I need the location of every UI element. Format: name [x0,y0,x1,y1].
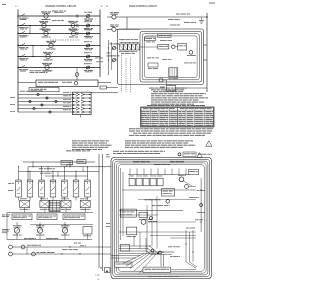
note under table [129,127,135,130]
right bus wire [206,13,208,92]
center ring [150,217,153,220]
terminal ring 3 [29,100,31,102]
wire bundle dashed 2 [125,58,127,93]
thermostat box [120,209,136,217]
wire code speck 4 [10,103,15,106]
fuse box right of board [100,86,107,89]
unit label box 2 [37,214,57,220]
right inner wire [170,237,196,239]
left interior bundle [120,168,122,240]
left margin specks [106,222,110,225]
interior cross wire b [119,214,158,216]
terminal block label [143,267,171,272]
table header rule [141,110,215,112]
tick marks [76,24,79,26]
probe jack [112,59,115,62]
load warmer element [49,43,53,47]
wire rung 1 [18,15,100,17]
board relay K2 [124,44,128,50]
caption right line 2 [113,152,116,155]
section link wire 1 [98,154,100,268]
harness loop D [116,163,206,273]
upper hub wire [150,235,196,237]
terminal ring 2 [46,97,48,99]
bundle ring 2 [159,251,162,254]
burner switch B2 [37,228,42,233]
terminal ring 7 [49,111,51,113]
board relay K1 [120,44,124,50]
svg-text:HEATER CONTROL CIRCUIT: HEATER CONTROL CIRCUIT [46,5,77,8]
P1 pin dots [73,94,74,95]
harness wire 3 [18,101,72,103]
warning triangle [206,141,212,146]
upper interior labels [133,160,140,163]
wire relay K5 [137,43,139,45]
ground strap wire [171,269,197,271]
wire board to bus lower [204,59,208,61]
mid label boxes [24,237,27,240]
terminal ring 5 [41,104,43,106]
harness wire 1 [18,94,72,96]
table column rule [150,110,152,128]
table divider [177,107,179,127]
wire board to bus upper [204,44,208,46]
wire relay K2 [124,43,126,45]
wire rung 4 [18,45,100,47]
load bake element [71,24,75,28]
interior label row 1 [145,198,148,201]
latch relay K23 [150,178,156,186]
display label box [158,34,171,38]
connector P1 block [72,92,91,114]
interior cross wire d [119,231,196,233]
thermostat switch S5 [87,55,90,58]
footnotes left column [72,139,77,142]
surface element R4 [80,201,90,208]
DLB relay contact K5 [20,56,21,57]
wire relays to eoc [139,46,158,48]
wire relay K3 [129,43,131,45]
cam switch [185,185,189,189]
aux label [139,218,142,221]
thermostat switch S6 [87,66,90,69]
feed jog wires [32,162,34,167]
margin speck a [8,182,11,185]
surface infinite switches [16,180,22,197]
caption line 2 [151,88,156,91]
unit label box 3 [63,214,85,220]
aux box a [139,213,148,218]
lock wire row 2 [12,253,111,255]
wire rung6 tail [76,68,78,73]
caption right line 1 [113,150,119,153]
left hub box [121,245,130,252]
P1 exit wire [91,92,118,94]
harness outer loop A [111,158,212,279]
section link wire 2 [102,154,104,271]
margin label left of harness [106,153,109,156]
corner page speck [209,2,215,5]
feed label row [39,167,43,170]
top right box [188,170,198,175]
table row rule [141,114,215,116]
surface element R3 [61,201,71,208]
wire relay K4 [133,43,135,45]
dashed interlock wire [50,39,80,41]
caption left [66,149,71,152]
board relay bus [120,42,140,44]
DLB relay contact K3 [20,33,21,34]
merge diagonals [150,246,158,254]
lower bus wire [7,212,93,214]
lock switch a [9,252,13,256]
vent label [176,13,180,16]
wire rung 5 [18,56,100,58]
lock switch b [32,252,36,256]
DLB relay contact K4 [20,45,21,46]
L1 bus wire [17,10,19,113]
surface unit drops [18,167,20,180]
terminal cluster box [105,268,111,273]
tick marks [76,14,79,16]
wire code speck 2 [10,96,15,99]
branch wire b [32,46,34,57]
harness wire 2 [18,97,72,99]
wire board to oven circuit [98,82,111,84]
lock wire row 1 [12,246,111,248]
sensor box [148,63,158,67]
oven lamp drop [87,234,89,240]
wire rung 2 [18,25,100,27]
latch relay K24 [157,178,163,186]
convection motor M4 [141,220,146,225]
load convect element [44,31,48,35]
right column wire [200,178,202,232]
board relay K4 [132,44,136,50]
warning triangle bottom [197,153,203,158]
table header text [143,107,148,110]
load bake element [42,23,46,27]
connector P1 pin chevron 1 [76,93,80,95]
link cross wires [111,255,140,257]
wire latch switch [107,28,112,30]
bundle drop wires [160,254,162,266]
notes list [151,92,158,95]
fuse ring [178,153,181,156]
wire board feed [18,82,36,84]
inner top drops [129,169,131,175]
caption line 1 [149,87,154,90]
wire bus under burners [7,239,92,241]
interior cross wire a [138,198,196,200]
latch labels above board [168,18,173,21]
thermostat switch S1 [87,15,90,18]
extra diagonal [123,254,144,264]
burner switch B3 [62,228,67,233]
mid specks [74,242,77,245]
harness loop 3 [144,36,197,78]
DLB relay contact K1 [20,15,21,16]
latch relay K21 [136,178,142,186]
wire buzzer link [175,46,178,48]
load convect element [72,32,76,36]
thermostat switch S4 [87,44,90,47]
inner top bus [128,174,190,176]
wire relay K1 [120,43,122,45]
harness loop 1 [140,32,202,83]
branch wire a [29,26,31,34]
buzzer [172,45,176,49]
table column rule [185,110,187,128]
board inner labels [146,41,151,44]
latch switch [112,27,116,31]
P1 label [20,90,25,93]
terminal strip hatch block [49,201,60,212]
feed label box 1 [61,161,73,165]
pilot lamp [189,51,193,55]
caption line 3 [153,90,158,93]
control board outline [118,29,204,85]
wire code speck 6 [10,110,13,113]
latch assembly below board [167,86,176,92]
DLB relay contact K2 [20,25,21,26]
burner switch B1 [14,228,19,233]
thermostat switch S2 [87,24,90,27]
burner wire drops [16,222,18,228]
door switch [112,47,115,50]
feed bends [27,167,29,180]
surface element R1 [20,201,30,208]
p10 label box [115,262,132,267]
interior bus 1 [122,189,196,191]
DLB relay contact K6 [20,67,21,68]
table row rule [141,118,215,120]
latch relay K20 [129,178,135,186]
inter-section verticals [108,40,110,75]
door lock label [37,251,40,254]
connector P1 pin chevron 3 [76,100,80,102]
connector P1 pin chevron 6 [76,111,80,113]
fuse link label [198,153,201,156]
wire probe jack [116,59,118,61]
wire tail to board [76,76,78,80]
element row labels [20,197,27,200]
right column marks [197,189,200,192]
table column rule [168,110,170,128]
merge wires left [119,245,150,247]
harness loop 2 [142,34,199,80]
harness wire 6 [18,111,72,113]
merge verticals [133,236,135,246]
footnotes right column [125,139,131,142]
latch motor M2 [112,15,116,19]
center verticals [151,200,153,246]
lock row junctions [61,253,62,254]
surface element R2 [40,201,50,208]
P2 margin label [107,52,111,55]
terminal ring 6 [33,107,35,109]
bundle node dots [157,253,158,254]
oven lamp box [83,227,92,235]
eoc center box [158,45,169,50]
latch relay K22 [143,178,149,186]
long interior wire [119,210,183,212]
terminal ring 4 [55,100,57,102]
fuse exit wire [107,87,119,89]
harness wire 4 [18,104,72,106]
bundle ring 1 [151,249,154,252]
harness loop E [118,165,204,272]
connector P1 pin chevron 5 [76,107,80,109]
connector P1 pin chevron 2 [76,97,80,99]
bundle run [146,251,174,253]
latch motor small [159,78,163,82]
connector P1 pin chevron 4 [76,104,80,106]
wire door switch [116,47,118,49]
table row rule [141,124,215,126]
fan motor M3 [179,177,184,182]
clock display box [29,88,59,92]
table row rule [141,120,215,122]
N bus wire [99,10,101,78]
feed top wire [28,166,111,168]
table row rule [141,112,215,114]
harness wire 5 [18,108,72,110]
element drops to bus [24,208,26,213]
table cell text [142,110,146,113]
feed top wire 0 [23,161,95,163]
lock motor [9,245,13,249]
oven control board box [36,80,98,87]
wire bundle dashed 1 [121,55,123,93]
table column rule [204,110,206,128]
load cooling fan [45,65,49,69]
clock label box [145,37,156,41]
bundle label [168,245,172,248]
right inner marks [195,218,199,221]
fan link diagonal [184,181,192,186]
inter-section specks [95,57,98,60]
left margin label a [2,214,5,217]
second burner wire [30,224,93,226]
wire bundle dashed 3 [130,58,132,93]
interior cross wire c [148,221,196,223]
lower relay box [127,227,137,235]
svg-text:OVEN CONTROL CIRCUIT: OVEN CONTROL CIRCUIT [129,6,158,8]
load oven light [46,54,50,58]
right interior marks [189,196,194,199]
board relay K5 [136,44,140,50]
harness loop B [113,159,210,276]
feed mid wire [19,170,100,172]
left margin label b [2,228,9,231]
rung 6 lower labels [30,69,34,72]
load broil element [44,14,48,18]
spec table outer frame [141,107,215,127]
P1 bottom stub [80,115,82,118]
board relay K3 [128,44,132,50]
margin speck b [8,189,13,192]
lock wire link [26,247,28,254]
rung1 upper label [52,10,58,13]
right vertical bundle [185,230,187,262]
transformer T1 [169,68,178,77]
table column rule [158,110,160,128]
lock ring [21,245,25,249]
rung2 upper label [52,19,57,22]
table row rule [141,122,215,124]
feed wire 4 [45,175,88,177]
lock row right label [62,248,68,251]
control pair box [162,189,175,197]
table title [147,104,153,107]
wire rung 3 [18,33,100,35]
page number mark [2,3,6,6]
table column rule [193,110,195,128]
unit label box 1 [12,214,32,220]
relay lamp [166,200,170,204]
chassis ground symbol [199,20,204,22]
table row rule [141,116,215,118]
fuse link box [183,152,196,156]
harness loop C [115,161,208,275]
interior label row 2 [152,204,156,207]
tail lamp [75,73,79,77]
board indicator lamp [74,81,78,85]
thermostat switch S3 [87,32,90,35]
caution line bottom [148,275,153,278]
tick marks [76,32,79,34]
terminal ring 1 [37,93,39,95]
wire latch motor [107,16,112,18]
relay module box [178,44,187,50]
wire rung 6 [18,67,100,69]
feed label box 2 [77,160,86,164]
